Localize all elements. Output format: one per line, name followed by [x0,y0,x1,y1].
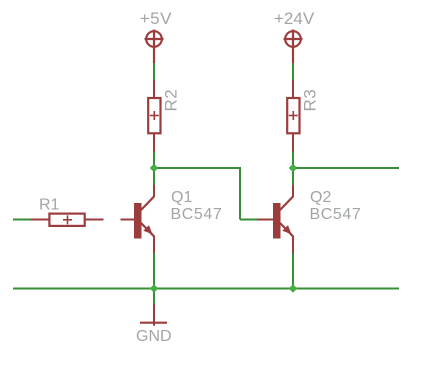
svg-text:+24V: +24V [274,9,315,28]
svg-text:GND: GND [136,328,172,345]
svg-text:R2: R2 [162,89,181,112]
svg-text:BC547: BC547 [171,206,223,223]
svg-text:+5V: +5V [140,9,172,28]
svg-text:R1: R1 [39,197,60,214]
svg-text:Q2: Q2 [310,189,331,206]
svg-text:Q1: Q1 [171,189,192,206]
svg-text:BC547: BC547 [310,206,362,223]
svg-text:R3: R3 [301,89,320,112]
